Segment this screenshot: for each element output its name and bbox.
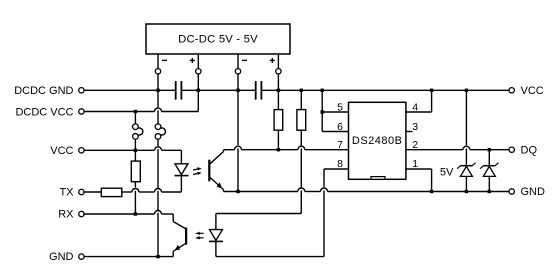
svg-text:5V: 5V — [440, 166, 454, 178]
svg-text:VCC: VCC — [50, 145, 73, 157]
svg-text:7: 7 — [337, 139, 343, 151]
svg-text:GND: GND — [521, 186, 546, 198]
svg-text:VCC: VCC — [521, 85, 544, 97]
svg-text:4: 4 — [412, 102, 418, 114]
svg-text:6: 6 — [337, 121, 343, 133]
svg-text:TX: TX — [59, 187, 74, 199]
svg-text:GND: GND — [49, 251, 74, 263]
svg-text:RX: RX — [58, 209, 74, 221]
svg-text:DQ: DQ — [521, 144, 538, 156]
svg-text:DCDC GND: DCDC GND — [14, 85, 73, 97]
svg-text:DC-DC 5V - 5V: DC-DC 5V - 5V — [178, 34, 258, 46]
svg-text:1: 1 — [412, 158, 418, 170]
svg-text:5: 5 — [337, 102, 343, 114]
svg-text:3: 3 — [412, 121, 418, 133]
svg-text:8: 8 — [337, 158, 343, 170]
svg-text:2: 2 — [412, 139, 418, 151]
svg-text:DCDC VCC: DCDC VCC — [15, 107, 73, 119]
svg-text:DS2480B: DS2480B — [352, 135, 403, 147]
